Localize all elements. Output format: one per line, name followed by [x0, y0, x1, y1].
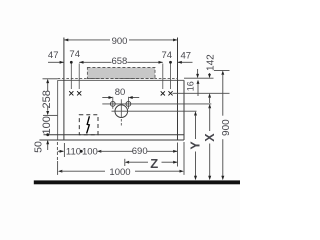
svg-text:50: 50	[32, 141, 44, 153]
svg-text:X: X	[203, 133, 217, 142]
svg-text:900: 900	[112, 36, 128, 47]
svg-text:110: 110	[66, 146, 81, 157]
svg-text:1000: 1000	[109, 167, 130, 178]
svg-text:100: 100	[82, 146, 98, 157]
svg-text:Y: Y	[189, 141, 203, 150]
svg-text:142: 142	[205, 54, 216, 71]
svg-text:100: 100	[41, 116, 53, 134]
svg-text:Z: Z	[150, 156, 158, 171]
svg-text:74: 74	[69, 49, 80, 60]
svg-text:690: 690	[132, 146, 148, 157]
svg-text:658: 658	[111, 56, 127, 67]
svg-text:47: 47	[181, 51, 192, 62]
svg-text:47: 47	[48, 50, 59, 61]
svg-text:80: 80	[115, 87, 126, 98]
svg-text:900: 900	[221, 119, 232, 136]
svg-text:258: 258	[41, 90, 53, 108]
svg-text:16: 16	[186, 81, 196, 91]
svg-text:74: 74	[162, 50, 173, 61]
